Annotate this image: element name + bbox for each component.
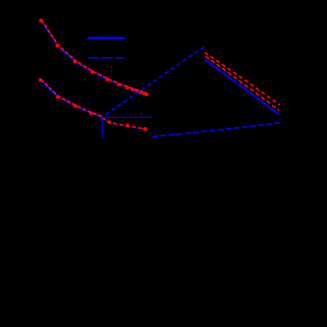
upper-left curve: blue solid line xyxy=(41,21,147,95)
lower gentle blue dashed extrapolation line xyxy=(152,123,280,137)
right bundle: upper red dashed curve xyxy=(205,53,280,105)
after-junction tail: red dashed line xyxy=(102,117,147,129)
right bundle: middle blue dashed underlay xyxy=(205,57,279,111)
lower-left curve: red circle markers xyxy=(39,78,93,115)
legend dashed blue line sample xyxy=(88,57,125,59)
lower-left curve: blue solid line xyxy=(41,80,102,117)
upper-left curve: red circle markers xyxy=(39,19,149,97)
after-junction tail: blue dashed line xyxy=(102,118,148,130)
ascending blue dashed extrapolation line xyxy=(102,47,204,117)
after-junction tail: red circle markers xyxy=(108,120,147,131)
lower-left curve: red dashed overlay xyxy=(41,79,102,116)
upper-left curve: red dashed overlay xyxy=(41,20,147,94)
right bundle: blue solid bottom curve xyxy=(205,60,280,115)
thin vertical blue annotation line xyxy=(101,117,103,138)
legend solid blue line sample xyxy=(88,37,125,39)
right bundle: middle red dashed curve xyxy=(205,56,279,110)
thin horizontal blue annotation line xyxy=(101,116,151,118)
